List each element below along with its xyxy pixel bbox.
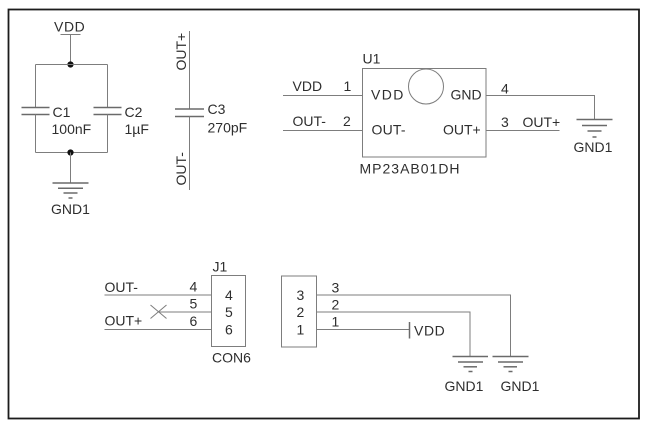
capacitor C3 [175, 101, 247, 136]
svg-text:1: 1 [344, 78, 352, 94]
svg-text:GND1: GND1 [445, 378, 484, 394]
svg-text:OUT+: OUT+ [523, 114, 561, 130]
ground GND1 (under C1/C2) [51, 183, 90, 217]
svg-text:6: 6 [190, 313, 198, 329]
wire J1 pin 3 to ground (right) [317, 295, 511, 357]
wire C3 bottom lead (OUT- net) [189, 117, 191, 191]
svg-text:GND1: GND1 [51, 201, 90, 217]
svg-text:1: 1 [332, 314, 340, 330]
svg-text:OUT+: OUT+ [443, 122, 481, 138]
ground GND1 (bottom left) [445, 357, 489, 395]
wire C1 top lead [35, 65, 37, 108]
wire J1 pin 5 stub [159, 311, 212, 313]
svg-text:VDD: VDD [54, 19, 85, 35]
svg-text:3: 3 [332, 280, 340, 296]
wire C3 top lead (OUT+ net) [189, 31, 191, 109]
wire C2 top lead [107, 65, 109, 108]
wire C2 bottom lead [107, 115, 109, 153]
svg-text:J1: J1 [213, 259, 228, 275]
svg-text:GND1: GND1 [501, 378, 540, 394]
ground GND1 (bottom right) [493, 357, 540, 395]
svg-text:6: 6 [225, 322, 233, 338]
svg-text:OUT-: OUT- [105, 279, 139, 295]
wire U1 pin 3 OUT+ stub [486, 130, 560, 132]
wire OUT- net to J1 pin 4 [105, 294, 212, 296]
svg-text:3: 3 [501, 114, 509, 130]
svg-text:2: 2 [332, 297, 340, 313]
svg-text:OUT-: OUT- [372, 122, 406, 138]
svg-text:MP23AB01DH: MP23AB01DH [360, 161, 461, 177]
connector J1 body (pins 4-6) [212, 276, 246, 347]
svg-text:VDD: VDD [371, 87, 405, 103]
svg-text:CON6: CON6 [212, 350, 251, 366]
svg-text:OUT-: OUT- [293, 113, 327, 129]
svg-text:U1: U1 [363, 51, 381, 67]
svg-text:C3: C3 [208, 101, 226, 117]
svg-text:OUT-: OUT- [173, 152, 189, 186]
svg-text:GND: GND [451, 87, 482, 103]
wire bottom rail C1-C2 [36, 152, 108, 154]
wire VDD symbol to top rail [70, 35, 72, 65]
no-connect X on pin 5 [151, 305, 167, 319]
svg-text:C2: C2 [125, 104, 143, 120]
node junction top (VDD net) [67, 61, 73, 67]
svg-text:4: 4 [190, 279, 198, 295]
svg-text:4: 4 [225, 287, 233, 303]
wire OUT- net to U1 pin 2 [283, 130, 363, 132]
svg-text:OUT+: OUT+ [173, 33, 189, 71]
wire top rail C1-C2 [36, 64, 108, 66]
wire C1 bottom lead [35, 115, 37, 153]
svg-text:OUT+: OUT+ [105, 313, 143, 329]
power symbol VDD (top left) [54, 19, 85, 35]
svg-text:270pF: 270pF [208, 120, 248, 136]
svg-text:C1: C1 [53, 104, 71, 120]
wire J1 pin 2 to ground (left) [317, 312, 471, 357]
capacitor C1 [22, 104, 92, 137]
op-amp U1 body [363, 69, 487, 158]
svg-text:2: 2 [343, 113, 351, 129]
svg-text:3: 3 [297, 287, 305, 303]
svg-text:2: 2 [297, 304, 305, 320]
ground GND1 (right of U1) [574, 120, 613, 156]
svg-text:VDD: VDD [414, 323, 445, 339]
power symbol VDD (bottom) [410, 322, 446, 339]
svg-text:GND1: GND1 [574, 139, 613, 155]
svg-text:5: 5 [190, 296, 198, 312]
svg-text:VDD: VDD [293, 78, 323, 94]
svg-text:5: 5 [225, 304, 233, 320]
capacitor C2 [94, 104, 149, 137]
svg-text:100nF: 100nF [52, 121, 92, 137]
svg-text:4: 4 [501, 81, 509, 97]
wire U1 pin 4 to ground [486, 96, 595, 120]
connector J1 body (pins 1-3) [282, 276, 317, 347]
node junction bottom (GND1 net) [67, 149, 73, 155]
wire VDD net to U1 pin 1 [283, 95, 363, 97]
svg-text:1µF: 1µF [125, 121, 149, 137]
svg-text:1: 1 [297, 322, 305, 338]
wire OUT+ net to J1 pin 6 [105, 329, 212, 331]
wire J1 pin 1 to VDD [317, 329, 410, 331]
wire junction to ground [70, 153, 72, 184]
